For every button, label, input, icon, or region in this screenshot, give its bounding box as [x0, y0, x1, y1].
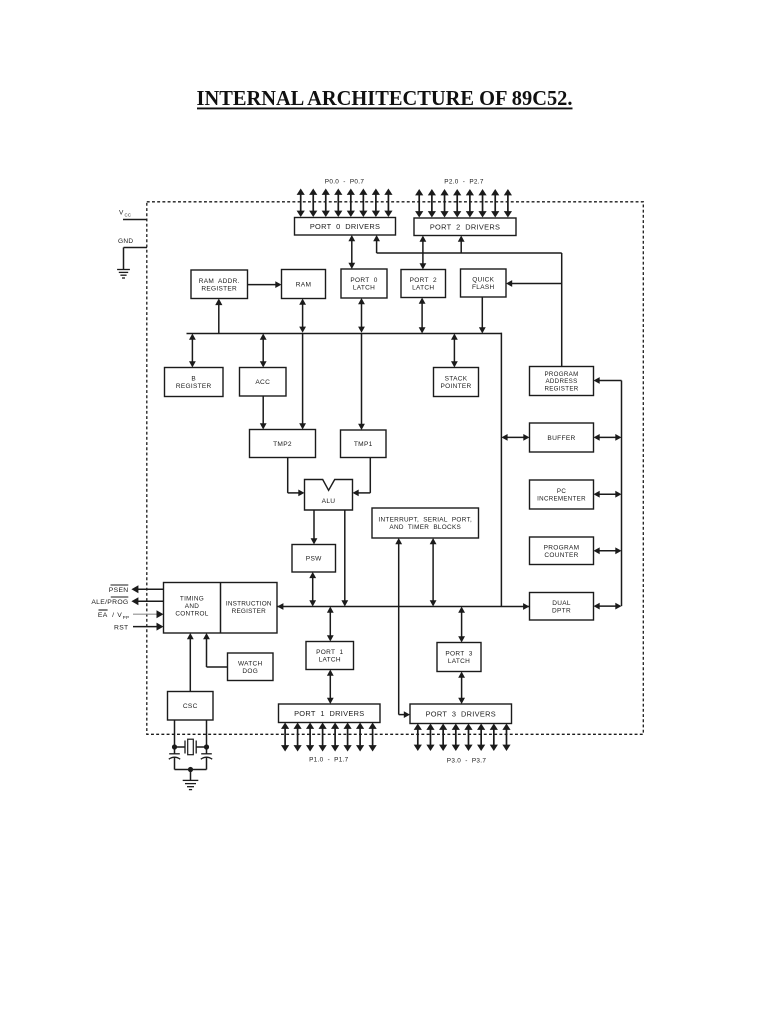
wire QUICK FLASH to bus: [479, 297, 486, 334]
wire port2 pin arrows (8 bidirectional): [415, 189, 512, 218]
wire PSW to lower bus: [309, 572, 316, 607]
svg-text:DUAL: DUAL: [552, 600, 571, 607]
wire main internal bus (horizontal): [187, 333, 503, 335]
svg-text:P2.0 - P2.7: P2.0 - P2.7: [444, 179, 484, 186]
svg-text:ACC: ACC: [255, 379, 270, 386]
wire PORT 2 DRIVERS to PORT 2 LATCH: [420, 236, 427, 270]
node Vcc: [119, 210, 147, 220]
box PROGRAM ADDRESS REGISTER: [530, 367, 594, 396]
svg-text:P3.0 - P3.7: P3.0 - P3.7: [447, 758, 487, 765]
box RAM: [282, 270, 326, 299]
svg-text:PORT 3: PORT 3: [445, 651, 472, 658]
svg-text:CONTROL: CONTROL: [175, 611, 208, 618]
wire bus to ACC: [260, 334, 267, 368]
wire ALU to PSW: [311, 510, 318, 545]
svg-text:P1.0 - P1.7: P1.0 - P1.7: [309, 757, 349, 764]
junction dot right: [204, 744, 209, 749]
svg-text:ALE/PROG: ALE/PROG: [91, 599, 128, 606]
svg-text:PC: PC: [557, 488, 566, 495]
wire RAM ADDR. REGISTER to RAM: [248, 281, 282, 288]
svg-text:EA: EA: [98, 612, 108, 619]
svg-text:PORT 0 DRIVERS: PORT 0 DRIVERS: [310, 222, 380, 231]
wire capacitor common: [175, 769, 207, 771]
box INTERRUPT SERIAL PORT AND TIMER BLOCKS: [372, 508, 479, 538]
svg-text:REGISTER: REGISTER: [544, 386, 578, 393]
ground symbol at GND pin: [117, 270, 130, 279]
svg-text:V: V: [119, 210, 124, 217]
svg-text:INSTRUCTION: INSTRUCTION: [226, 600, 272, 607]
svg-text:STACK: STACK: [445, 376, 468, 383]
wire BUFFER to central bus: [501, 434, 529, 441]
svg-text:LATCH: LATCH: [412, 285, 434, 292]
wire CSC to crystal (right leg): [206, 720, 208, 747]
wire PROGRAM COUNTER to right column: [594, 547, 622, 554]
svg-text:RAM ADDR.: RAM ADDR.: [199, 278, 240, 285]
svg-text:REGISTER: REGISTER: [201, 285, 237, 292]
box PORT 3 DRIVERS: [410, 704, 512, 724]
svg-text:REGISTER: REGISTER: [232, 608, 266, 615]
label P3.0 - P3.7: [447, 758, 487, 765]
junction dot center: [188, 767, 193, 772]
svg-text:ADDRESS: ADDRESS: [545, 378, 577, 385]
box STACK POINTER: [434, 368, 479, 397]
wire program address register riser: [561, 253, 563, 367]
capacitor C2: [201, 747, 212, 770]
svg-text:REGISTER: REGISTER: [176, 383, 212, 390]
wire PORT 0 LATCH to bus and on to TMP1: [358, 298, 365, 430]
svg-text:PORT 1: PORT 1: [316, 649, 343, 656]
svg-text:TMP2: TMP2: [273, 441, 292, 448]
wire bus to B REGISTER: [189, 334, 196, 368]
pin ALE/PROG (output): [91, 597, 163, 606]
svg-text:PORT 0: PORT 0: [350, 277, 377, 284]
wire bus to STACK POINTER: [451, 334, 458, 368]
svg-text:WATCH: WATCH: [238, 660, 263, 667]
wire program address to port drivers (horizontal run): [373, 235, 562, 253]
svg-text:FLASH: FLASH: [472, 284, 494, 291]
svg-text:ALU: ALU: [322, 498, 336, 505]
svg-text:RAM: RAM: [296, 281, 312, 288]
junction dot left: [172, 744, 177, 749]
svg-text:DPTR: DPTR: [552, 607, 571, 614]
wire branch into QUICK FLASH: [506, 280, 562, 287]
wire PORT 0 DRIVERS to PORT 0 LATCH: [348, 235, 355, 269]
wire into PROGRAM ADDRESS REGISTER: [594, 377, 622, 384]
svg-text:PROGRAM: PROGRAM: [544, 371, 578, 378]
box PROGRAM COUNTER: [530, 537, 594, 565]
svg-text:TIMING: TIMING: [180, 596, 204, 603]
svg-text:/: /: [112, 612, 114, 619]
wire lower internal bus (horizontal): [277, 603, 529, 610]
wire branch up to PORT 2 DRIVERS: [458, 236, 465, 254]
wire lower bus to PORT 3 LATCH: [458, 607, 465, 643]
box PORT 1 DRIVERS: [279, 704, 381, 723]
svg-text:QUICK: QUICK: [472, 277, 494, 284]
box PORT 1 LATCH: [306, 642, 354, 670]
box RAM ADDR. REGISTER: [191, 270, 248, 299]
wire PORT 3 LATCH to PORT 3 DRIVERS: [458, 672, 465, 705]
wire TMP2 to ALU: [288, 458, 305, 497]
wire bus right corner down to lower bus: [500, 333, 502, 607]
pin PSEN (output): [109, 585, 164, 594]
wire right column vertical: [621, 381, 623, 607]
wire lower bus to PORT 1 LATCH: [327, 607, 334, 642]
wire bus to RAM ADDR. REGISTER: [215, 299, 222, 334]
svg-text:CC: CC: [125, 213, 132, 218]
svg-text:LATCH: LATCH: [319, 657, 341, 664]
wire PORT 1 LATCH to PORT 1 DRIVERS: [327, 670, 334, 705]
svg-text:CSC: CSC: [183, 703, 198, 710]
box PORT 2 DRIVERS: [414, 218, 516, 236]
svg-text:POINTER: POINTER: [441, 383, 472, 390]
svg-text:COUNTER: COUNTER: [544, 552, 578, 559]
pin RST (input): [114, 623, 164, 632]
label P0.0 - P0.7: [325, 179, 365, 186]
svg-text:PSW: PSW: [306, 556, 322, 563]
svg-text:GND: GND: [118, 238, 133, 245]
wire ALU to lower bus: [341, 510, 348, 607]
svg-text:DOG: DOG: [242, 668, 258, 675]
crystal X1: [175, 739, 207, 755]
wire port3 pin arrows (8 bidirectional): [414, 724, 511, 752]
svg-text:PORT 3 DRIVERS: PORT 3 DRIVERS: [426, 709, 496, 718]
wire INTERRUPT block to PORT 3 DRIVERS: [395, 538, 410, 718]
svg-text:AND: AND: [185, 603, 199, 610]
wire PC INCREMENTER to right column: [594, 491, 622, 498]
wire port1 pin arrows (8 bidirectional): [281, 723, 377, 752]
box TIMING AND CONTROL / INSTRUCTION REGISTER: [164, 583, 278, 634]
svg-text:V: V: [117, 612, 122, 619]
ground symbol at oscillator: [183, 770, 199, 790]
box QUICK FLASH: [461, 269, 507, 297]
node GND: [118, 238, 147, 270]
svg-text:LATCH: LATCH: [353, 285, 375, 292]
wire BUFFER to right column: [594, 434, 622, 441]
box BUFFER: [530, 423, 594, 452]
wire DUAL DPTR to right column: [594, 603, 622, 610]
box PORT 3 LATCH: [437, 643, 481, 672]
box PORT 0 LATCH: [341, 269, 387, 298]
chip boundary (dashed border): [147, 202, 644, 735]
box TMP1: [341, 430, 387, 458]
box PC INCREMENTER: [530, 480, 594, 509]
svg-text:TMP1: TMP1: [354, 441, 373, 448]
svg-text:PP: PP: [123, 615, 130, 620]
box B REGISTER: [165, 368, 224, 397]
svg-text:INTERRUPT, SERIAL PORT,: INTERRUPT, SERIAL PORT,: [378, 517, 472, 524]
svg-text:BUFFER: BUFFER: [547, 435, 575, 442]
box DUAL DPTR: [530, 593, 594, 621]
wire PORT 2 LATCH to bus: [419, 298, 426, 334]
box PORT 2 LATCH: [401, 270, 446, 298]
wire CSC to TIMING AND CONTROL: [187, 633, 194, 692]
svg-text:P0.0 - P0.7: P0.0 - P0.7: [325, 179, 365, 186]
wire TMP1 to ALU: [353, 458, 371, 497]
box TMP2: [250, 430, 316, 458]
box ACC: [240, 368, 287, 397]
svg-text:PROGRAM: PROGRAM: [544, 544, 580, 551]
wire port0 pin arrows (8 bidirectional): [297, 189, 393, 218]
svg-text:B: B: [191, 376, 196, 383]
title INTERNAL ARCHITECTURE OF 89C52.: [197, 86, 573, 110]
svg-text:INCREMENTER: INCREMENTER: [537, 495, 586, 502]
box CSC: [168, 692, 214, 721]
pin EA/Vpp (input): [98, 610, 164, 620]
svg-text:PORT 2: PORT 2: [410, 277, 437, 284]
svg-text:PORT 1 DRIVERS: PORT 1 DRIVERS: [294, 709, 364, 718]
svg-text:PSEN: PSEN: [109, 587, 129, 594]
label P2.0 - P2.7: [444, 179, 484, 186]
wire WATCH DOG to TIMING AND CONTROL: [203, 633, 227, 667]
box PSW: [292, 545, 336, 573]
box WATCH DOG: [228, 653, 274, 681]
svg-text:PORT 2 DRIVERS: PORT 2 DRIVERS: [430, 222, 500, 231]
svg-text:INTERNAL ARCHITECTURE OF 89C52: INTERNAL ARCHITECTURE OF 89C52.: [197, 86, 573, 110]
capacitor C1: [169, 747, 180, 770]
svg-text:AND TIMER BLOCKS: AND TIMER BLOCKS: [389, 524, 461, 531]
label P1.0 - P1.7: [309, 757, 349, 764]
wire ACC to TMP2: [260, 396, 267, 430]
wire INTERRUPT block to lower bus: [430, 538, 437, 607]
wire RAM to bus and on to TMP2: [299, 299, 306, 430]
box PORT 0 DRIVERS: [295, 218, 396, 236]
svg-text:LATCH: LATCH: [448, 658, 470, 665]
wire CSC to crystal (left leg): [174, 720, 176, 747]
svg-text:RST: RST: [114, 624, 129, 631]
box ALU: [305, 480, 353, 511]
